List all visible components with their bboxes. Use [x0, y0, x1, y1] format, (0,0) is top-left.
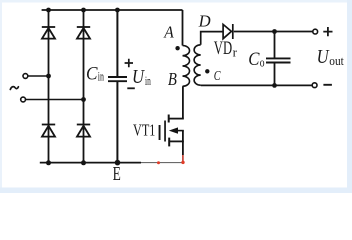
capacitor Cin [108, 77, 127, 81]
wire bridge column 1 [48, 10, 50, 163]
wire source to rail red segment [182, 155, 184, 163]
wire bridge column 2 [83, 10, 85, 163]
svg-text:C: C [214, 68, 222, 83]
svg-text:VT1: VT1 [133, 121, 155, 140]
capacitor Co [266, 58, 291, 62]
wire AC input line 2 [26, 99, 84, 101]
wire bottom rail thin segment to source [141, 162, 183, 164]
wire top rail [42, 9, 183, 11]
AC tilde symbol [10, 87, 18, 90]
wire body-source vertical [182, 131, 184, 155]
wire output bottom [201, 84, 313, 86]
transistor VT1 source bar [168, 138, 170, 147]
label plus Cin [125, 59, 133, 67]
transistor VT1 body arrow [177, 130, 184, 132]
svg-text:C: C [86, 64, 98, 85]
wire primary top lead [182, 10, 184, 46]
red junction at source corner [181, 161, 184, 164]
junction dot Co bottom [272, 83, 277, 88]
diode bridge upper-right [77, 27, 90, 39]
label minus Cin [127, 87, 135, 89]
terminal output plus [313, 29, 318, 34]
svg-text:C: C [248, 49, 259, 70]
junction dot bottom col1 [46, 160, 51, 165]
page border tint left [0, 0, 2, 193]
svg-text:VD: VD [214, 38, 232, 59]
diode VDr [223, 24, 233, 39]
terminal AC input 1 [23, 74, 28, 79]
wire Co column upper [274, 32, 276, 58]
junction dot Co top [272, 29, 277, 34]
svg-text:in: in [145, 74, 151, 88]
wire bottom rail [40, 162, 141, 164]
transistor VT1 drain bar [168, 115, 170, 123]
page border tint bottom [0, 188, 352, 194]
svg-text:D: D [198, 11, 212, 30]
terminal output minus [312, 83, 317, 88]
junction dot top col2 [81, 8, 86, 13]
svg-text:A: A [163, 22, 174, 41]
junction dot bottom Cin node E [115, 160, 121, 166]
svg-text:U: U [317, 47, 331, 68]
transformer primary winding [183, 46, 190, 87]
svg-text:U: U [132, 67, 146, 88]
diode bridge lower-left [42, 125, 55, 137]
red speck on rail [157, 161, 160, 164]
svg-text:o: o [260, 54, 265, 69]
svg-text:out: out [329, 54, 344, 68]
page border tint right [347, 0, 352, 193]
junction dot top Cin [115, 8, 120, 13]
junction dot AC1-col1 [46, 74, 51, 79]
wire primary bottom lead to drain [182, 86, 184, 118]
junction dot bottom col2 [81, 160, 86, 165]
transistor VT1 drain lead [169, 118, 184, 120]
diode bridge upper-left [42, 27, 55, 39]
terminal AC input 2 [21, 97, 26, 102]
wire Cin column upper [116, 10, 118, 76]
transistor VT1 gate bar [159, 125, 161, 140]
svg-text:B: B [168, 69, 177, 89]
diode bridge lower-right [77, 125, 90, 137]
transistor VT1 source lead [169, 140, 184, 142]
wire Co column lower [274, 63, 276, 85]
polarity dot primary [175, 46, 179, 50]
svg-text:in: in [98, 70, 105, 84]
wire Cin column lower [116, 82, 118, 163]
transistor VT1 channel line [164, 121, 166, 142]
wire AC input line 1 [28, 75, 49, 77]
label minus output [323, 84, 332, 86]
svg-text:E: E [113, 164, 121, 185]
page border tint top [0, 0, 352, 3]
label plus output [323, 27, 332, 36]
svg-text:r: r [233, 44, 238, 59]
transformer secondary winding [194, 45, 201, 85]
polarity dot secondary [205, 69, 209, 73]
wire output top [234, 31, 313, 33]
wire secondary top lead [201, 32, 224, 45]
junction dot AC2-col2 [81, 97, 86, 102]
junction dot top col1 [46, 8, 51, 13]
